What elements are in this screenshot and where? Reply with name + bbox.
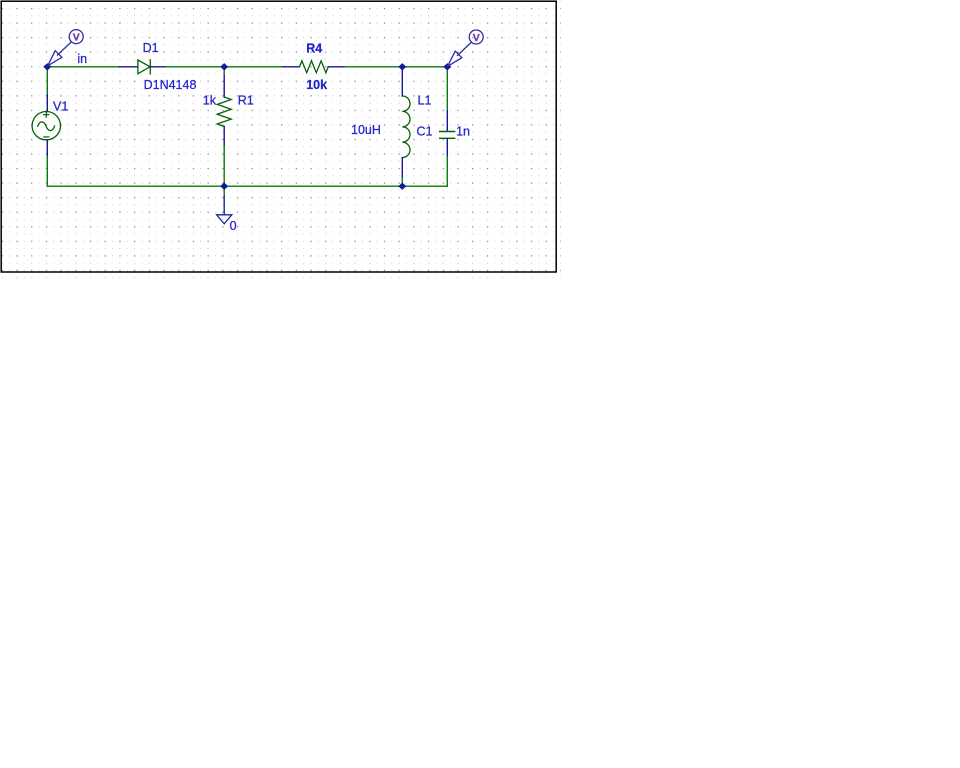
svg-text:D1: D1: [143, 41, 159, 55]
capacitor C1 top pin: [446, 111, 448, 131]
voltage marker V right: circle: [469, 30, 483, 44]
wire top rail mid segment (diode to R4): [166, 66, 284, 68]
junction node R1 top: [220, 63, 228, 70]
capacitor C1 bottom pin: [446, 139, 448, 157]
resistor R4 left pin: [283, 66, 300, 68]
junction node L1 bottom: [398, 183, 406, 190]
source V1 circle: [32, 112, 60, 140]
resistor R4 zigzag: [300, 61, 329, 73]
svg-text:1n: 1n: [456, 124, 470, 138]
junction node L1 top: [398, 63, 406, 70]
wire left branch upper: [46, 67, 48, 95]
svg-text:L1: L1: [418, 93, 432, 107]
inductor L1 bottom pin: [401, 158, 403, 178]
junction node out: [443, 63, 451, 70]
wire left branch lower: [46, 157, 48, 187]
source V1 bottom pin: [46, 140, 48, 157]
ground pin: [223, 196, 225, 215]
wire R1 bottom stub: [223, 146, 225, 187]
schematic canvas: [0, 0, 561, 279]
voltage marker V right: shaft: [457, 42, 472, 56]
voltage marker V left: shaft: [57, 42, 72, 56]
voltage marker V right: arrowhead: [448, 51, 462, 66]
svg-text:D1N4148: D1N4148: [144, 78, 197, 92]
svg-text:V: V: [473, 32, 480, 44]
junction node in: [43, 63, 51, 70]
junction node R1 bottom: [220, 183, 228, 190]
diode D1 cathode pin: [150, 66, 165, 68]
source V1 minus mark: [44, 136, 49, 138]
voltage marker V left: circle: [69, 30, 83, 44]
svg-text:10k: 10k: [306, 78, 327, 92]
svg-text:in: in: [77, 52, 87, 66]
wire C1 top segment: [446, 67, 448, 111]
resistor R1 bottom pin: [223, 127, 225, 146]
svg-text:V: V: [73, 32, 80, 44]
svg-text:1k: 1k: [203, 94, 217, 108]
inductor L1 top pin: [401, 67, 403, 96]
svg-text:C1: C1: [417, 124, 433, 138]
wire C1 bottom segment: [446, 157, 448, 187]
source V1 plus mark: [44, 112, 49, 117]
inductor L1 coil: [402, 96, 410, 158]
resistor R1 zigzag: [217, 97, 231, 127]
wire top rail right segment (R4 to node out): [345, 66, 447, 68]
resistor R4 right pin: [328, 66, 345, 68]
resistor R1 top pin: [223, 76, 225, 97]
wire L1 bottom stub: [401, 178, 403, 186]
canvas border: [1, 1, 556, 272]
source V1 sine wave: [38, 122, 55, 131]
capacitor C1 plates: [440, 132, 455, 139]
voltage marker V left: arrowhead: [48, 51, 62, 66]
svg-text:10uH: 10uH: [351, 123, 381, 137]
source V1 top pin: [46, 95, 48, 112]
diode D1 anode pin: [119, 66, 138, 68]
diode D1 body: [138, 60, 150, 74]
svg-text:V1: V1: [53, 100, 68, 114]
wire top rail left segment (node in to diode): [47, 66, 119, 68]
ground symbol triangle: [217, 215, 232, 224]
svg-text:R1: R1: [238, 94, 254, 108]
wire R1 top stub: [223, 67, 225, 76]
wire bottom rail: [47, 185, 447, 187]
wire ground stub: [223, 186, 225, 196]
svg-text:R4: R4: [306, 41, 322, 55]
svg-text:0: 0: [230, 219, 237, 233]
